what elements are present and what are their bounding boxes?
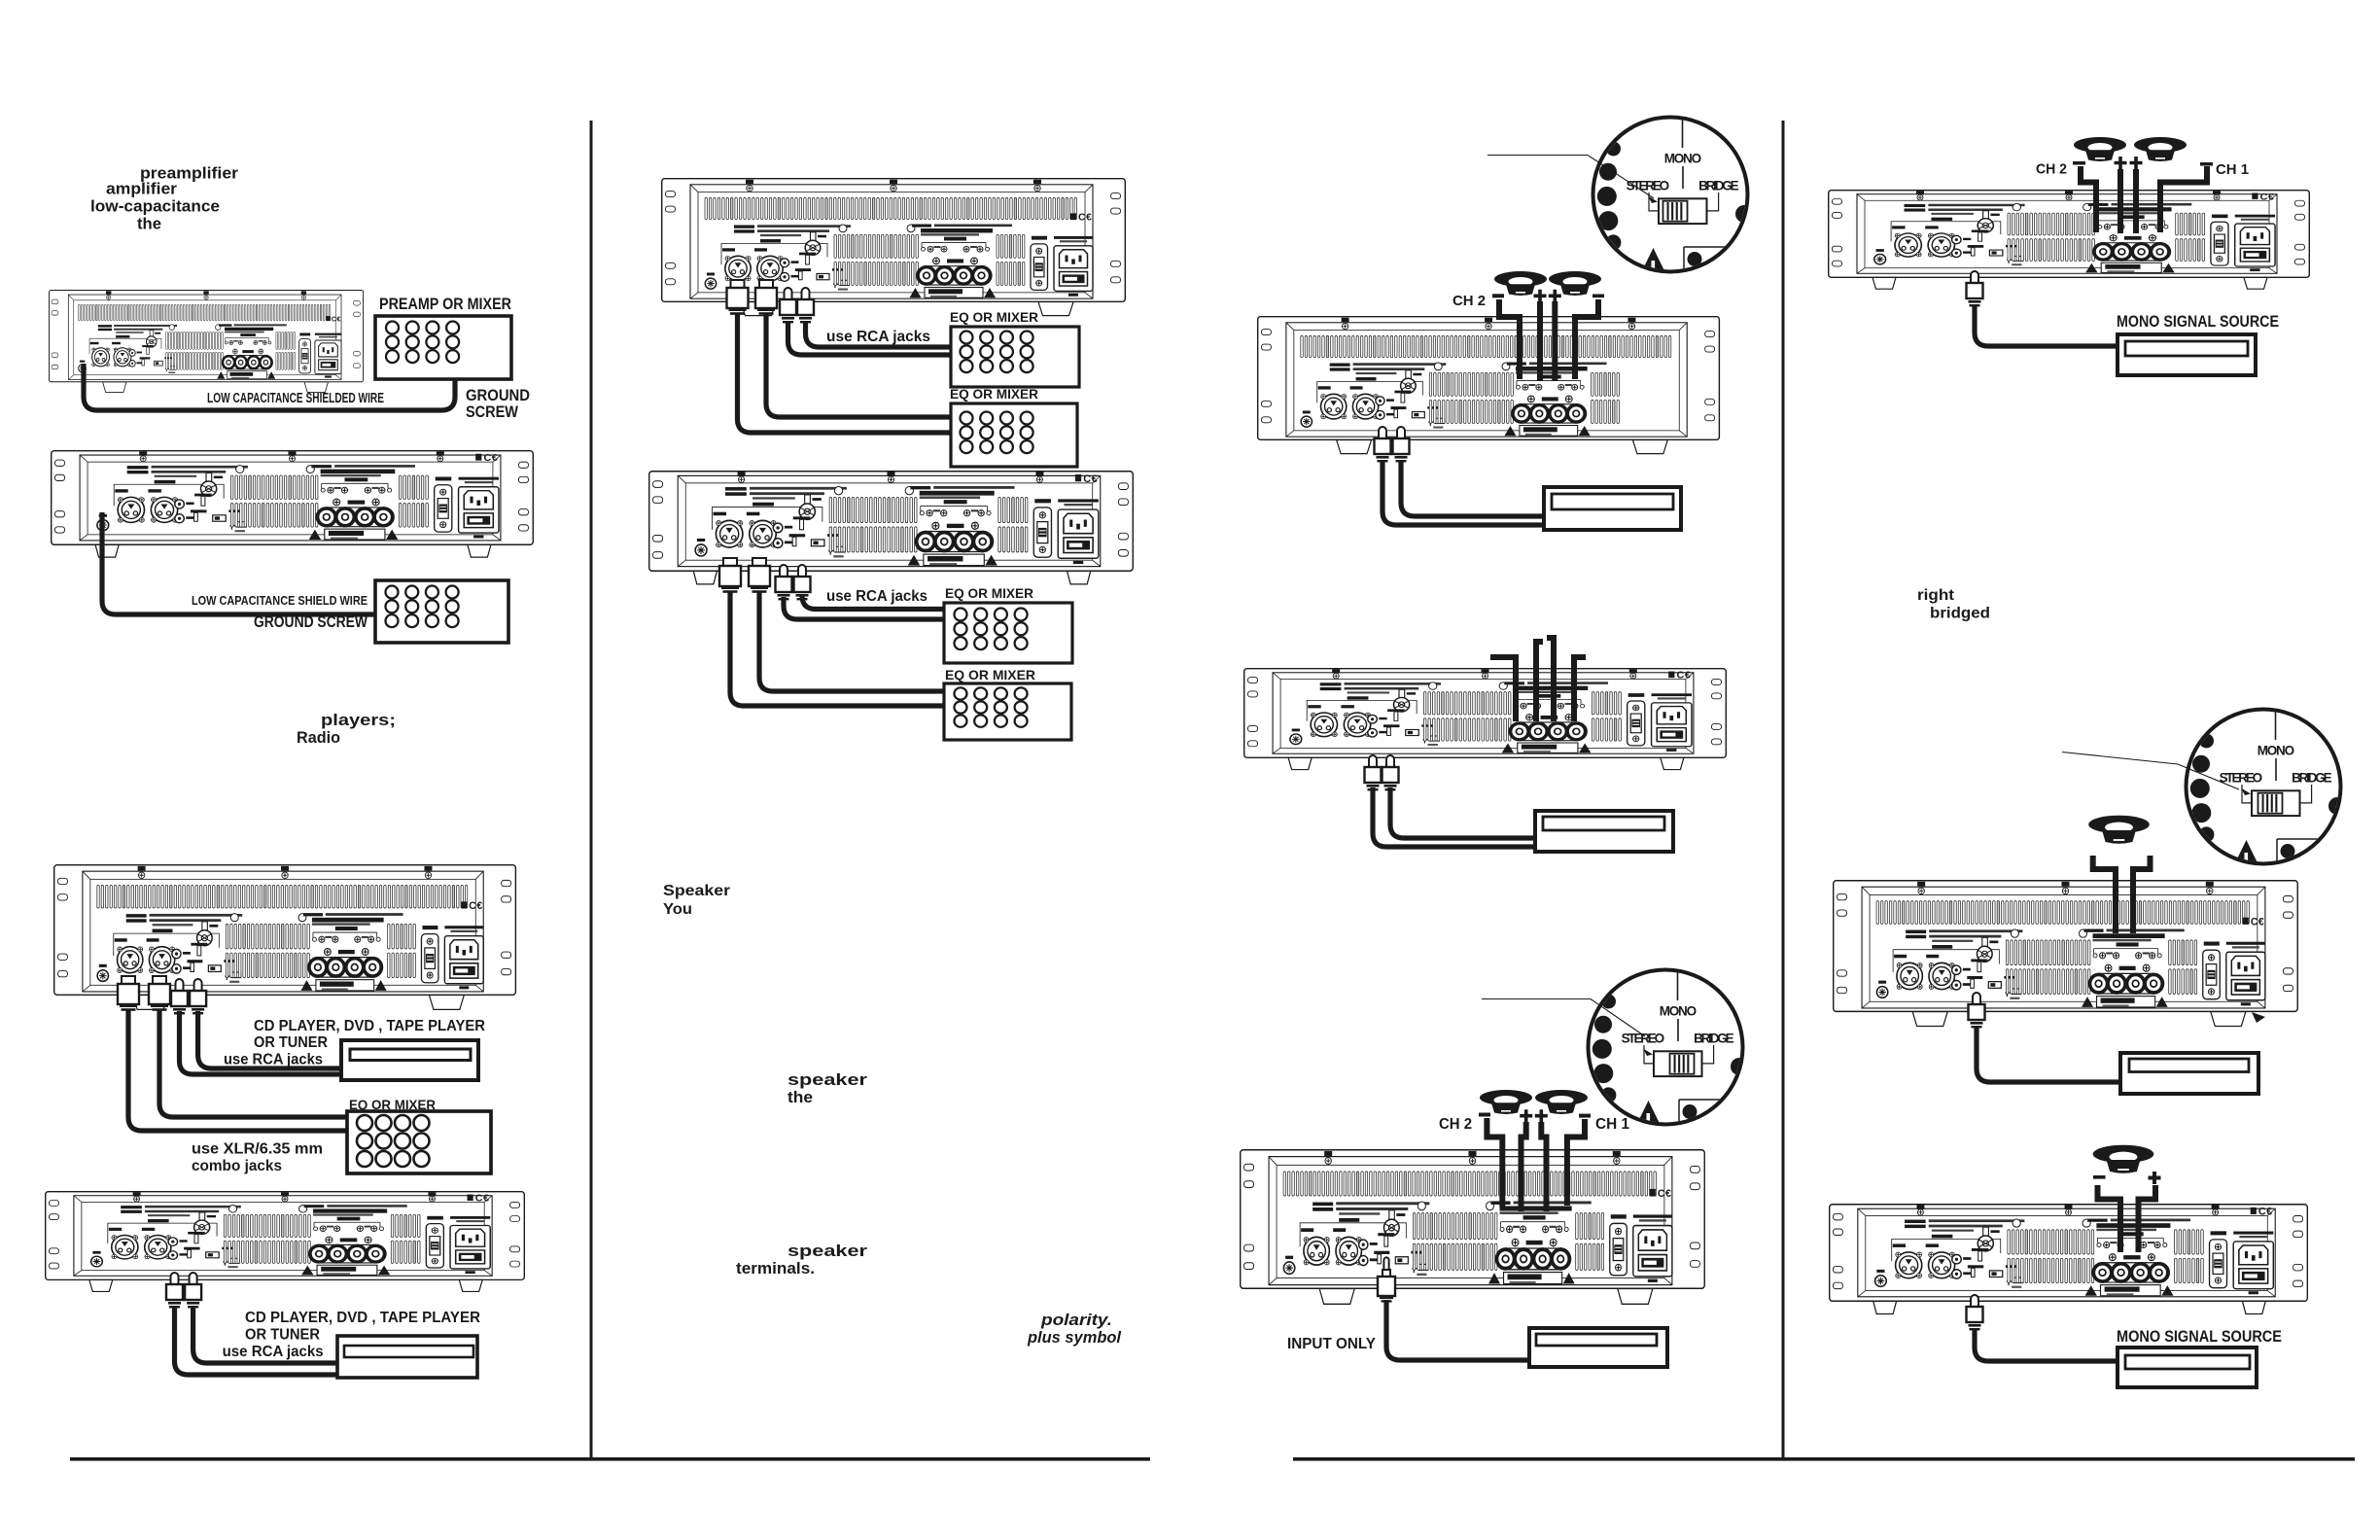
XLR plug 1 into AMP6 bbox=[719, 558, 741, 593]
RCA wire AMP5 upper to EQ box 1 bbox=[806, 321, 952, 347]
signal wire AMP8 lower to source box bbox=[1373, 787, 1535, 847]
svg-text:Radio: Radio bbox=[297, 728, 340, 747]
svg-text:SCREW: SCREW bbox=[466, 402, 519, 421]
polarity marks speaker5 bbox=[2093, 1175, 2106, 1179]
signal wire AMP9 to source box bbox=[1386, 1300, 1529, 1360]
zoom circle 2 leader line bbox=[1482, 999, 1645, 1037]
RCA wire AMP3 upper to CD player bbox=[198, 1011, 341, 1068]
EQ or mixer box 4 bbox=[944, 683, 1071, 740]
svg-text:right: right bbox=[1917, 587, 1955, 604]
RCA wire AMP3 lower to CD player bbox=[180, 1011, 343, 1074]
EQ or mixer box 3 bbox=[944, 603, 1072, 663]
ground wire AMP2 to ground-screw box bbox=[102, 512, 375, 614]
XLR wire AMP6 lower to EQ box 4 bbox=[730, 591, 944, 706]
RCA plug 2 into AMP7 bbox=[1393, 427, 1410, 462]
svg-text:PREAMP OR MIXER: PREAMP OR MIXER bbox=[379, 296, 511, 313]
amplifier AMP9 rear panel bbox=[1241, 1150, 1705, 1305]
signal source box diagram1 bbox=[1544, 487, 1681, 530]
signal wire AMP8 upper to source box bbox=[1390, 787, 1535, 838]
svg-text:combo jacks: combo jacks bbox=[192, 1158, 282, 1174]
speaker 5 single bbox=[2093, 1145, 2154, 1173]
amplifier AMP2 rear panel bbox=[52, 451, 534, 557]
CD player box 2 bbox=[337, 1336, 477, 1378]
RCA plug 2 into AMP5 bbox=[797, 288, 814, 323]
EQ box 2 jack grid bbox=[961, 412, 1033, 454]
EQ box 4 jack grid bbox=[955, 687, 1028, 726]
RCA wire AMP4 lower to CD player bbox=[175, 1306, 339, 1375]
zoom circle 3 (mode switch detail) bbox=[2187, 710, 2347, 865]
preamp jack grid bbox=[386, 322, 459, 364]
speaker 2 right (CH1) bbox=[1535, 1090, 1588, 1114]
CD player box bbox=[341, 1040, 478, 1080]
amplifier AMP7 rear panel (no PSU shown) bbox=[1258, 317, 1720, 454]
speaker wire 4a bbox=[2093, 856, 2116, 933]
wire stub b above AMP8 bbox=[1536, 642, 1543, 721]
XLR wire AMP5 upper to EQ box 2 bbox=[766, 313, 951, 417]
svg-text:low-capacitance: low-capacitance bbox=[90, 197, 220, 216]
svg-text:CD PLAYER, DVD , TAPE PLAYER: CD PLAYER, DVD , TAPE PLAYER bbox=[254, 1018, 485, 1034]
svg-text:CH 2: CH 2 bbox=[1452, 293, 1486, 309]
EQ or mixer box bbox=[347, 1111, 491, 1173]
svg-text:EQ OR MIXER: EQ OR MIXER bbox=[950, 309, 1038, 325]
RCA plug into AMP12 bbox=[1967, 1295, 1983, 1330]
signal wire AMP11 to source box bbox=[1977, 1026, 2120, 1082]
svg-text:EQ OR MIXER: EQ OR MIXER bbox=[945, 667, 1035, 682]
amplifier AMP1 rear panel bbox=[49, 291, 363, 393]
speaker wire 3c bbox=[2133, 169, 2139, 233]
XLR wire AMP5 lower to EQ box 2 bbox=[738, 313, 952, 433]
amplifier AMP10 rear panel bbox=[1829, 191, 2310, 290]
speaker wire 3b bbox=[2117, 169, 2123, 233]
svg-text:Speaker: Speaker bbox=[663, 883, 730, 899]
svg-text:MONO SIGNAL SOURCE: MONO SIGNAL SOURCE bbox=[2117, 313, 2279, 331]
svg-text:polarity.: polarity. bbox=[1040, 1312, 1112, 1329]
mono signal source box 2 bbox=[2120, 1053, 2258, 1094]
RCA plug 1 into AMP5 bbox=[780, 288, 796, 323]
XLR plug 1 into AMP3 bbox=[118, 976, 139, 1011]
polarity marks diagram1 bbox=[1492, 294, 1504, 297]
wire stub a above AMP8 bbox=[1490, 657, 1516, 721]
speaker 1 left (CH2) bbox=[1494, 271, 1547, 296]
XLR plug 2 into AMP6 bbox=[749, 558, 770, 593]
XLR wire AMP3 lower to EQ box bbox=[128, 1009, 347, 1131]
amplifier AMP5 rear panel bbox=[662, 179, 1126, 316]
svg-text:You: You bbox=[663, 901, 692, 918]
amplifier AMP3 rear panel bbox=[54, 865, 516, 1010]
wire stub d above AMP8 bbox=[1574, 657, 1586, 721]
zoom circle 2 (bridge mode detail) bbox=[1589, 970, 1749, 1126]
RCA plug into AMP10 bbox=[1967, 271, 1983, 306]
RCA plug into AMP11 bbox=[1969, 993, 1985, 1028]
speaker wire 2b bbox=[1522, 1122, 1526, 1211]
svg-text:OR TUNER: OR TUNER bbox=[254, 1034, 328, 1051]
polarity marks diagram2 bbox=[1479, 1113, 1490, 1117]
zoom circle 1 leader line bbox=[1487, 156, 1654, 199]
signal wire AMP7 upper to source box bbox=[1401, 460, 1544, 516]
EQ box 1 jack grid bbox=[961, 332, 1033, 373]
speaker wire 1a bbox=[1499, 299, 1520, 379]
speaker wire 1d bbox=[1575, 299, 1598, 379]
svg-text:CD PLAYER, DVD , TAPE PLAYER: CD PLAYER, DVD , TAPE PLAYER bbox=[245, 1310, 480, 1326]
svg-text:EQ OR MIXER: EQ OR MIXER bbox=[945, 585, 1033, 601]
amplifier AMP6 rear panel bbox=[649, 472, 1134, 584]
amplifier AMP12 rear panel bbox=[1830, 1205, 2308, 1314]
speaker wire 3d bbox=[2160, 166, 2207, 232]
svg-text:MONO SIGNAL SOURCE: MONO SIGNAL SOURCE bbox=[2117, 1328, 2282, 1346]
svg-text:CH 2: CH 2 bbox=[2036, 161, 2067, 178]
EQ box jack grid bbox=[357, 1115, 430, 1167]
svg-text:speaker: speaker bbox=[787, 1242, 867, 1260]
EQ box 3 jack grid bbox=[955, 609, 1028, 650]
svg-text:LOW CAPACITANCE SHIELDED WIRE: LOW CAPACITANCE SHIELDED WIRE bbox=[207, 391, 384, 406]
signal wire AMP7 lower to source box bbox=[1382, 460, 1544, 525]
svg-text:terminals.: terminals. bbox=[736, 1259, 815, 1277]
wire stub c above AMP8 bbox=[1547, 638, 1554, 721]
speaker 3 left (CH2) bbox=[2074, 137, 2126, 161]
svg-text:EQ OR MIXER: EQ OR MIXER bbox=[950, 386, 1038, 402]
RCA wire AMP5 lower to EQ box 1 bbox=[788, 321, 952, 355]
RCA plug 2 into AMP8 bbox=[1382, 755, 1399, 790]
amplifier AMP11 rear panel bbox=[1834, 881, 2298, 1027]
svg-text:the: the bbox=[137, 215, 161, 233]
RCA plug 1 into AMP8 bbox=[1365, 755, 1382, 790]
svg-text:CH 2: CH 2 bbox=[1439, 1116, 1472, 1133]
XLR wire AMP3 upper to EQ box bbox=[159, 1009, 347, 1117]
svg-text:INPUT ONLY: INPUT ONLY bbox=[1287, 1336, 1377, 1352]
speaker 4 single bbox=[2088, 816, 2150, 844]
speaker wire 3a bbox=[2081, 166, 2096, 232]
RCA plug 2 into AMP6 bbox=[794, 565, 811, 600]
svg-text:OR TUNER: OR TUNER bbox=[245, 1327, 320, 1344]
signal source box diagram3 bbox=[1529, 1328, 1667, 1367]
jack plug into AMP9 bbox=[1378, 1257, 1395, 1302]
svg-text:players;: players; bbox=[321, 711, 396, 729]
ground screw box jack grid bbox=[386, 586, 459, 628]
EQ or mixer box 2 bbox=[951, 403, 1077, 467]
zoom circle 1 (mode switch detail) bbox=[1593, 118, 1754, 273]
speaker wire 1c bbox=[1552, 301, 1557, 381]
preamp/mixer box bbox=[375, 316, 511, 379]
speaker wire 2c bbox=[1541, 1122, 1546, 1211]
bottom rule right bbox=[1293, 1457, 2355, 1461]
amplifier AMP4 rear panel bbox=[46, 1192, 525, 1292]
speaker 2 left (CH2) bbox=[1480, 1090, 1532, 1114]
XLR plug 2 into AMP5 bbox=[755, 280, 777, 315]
RCA plug 1 into AMP7 bbox=[1375, 427, 1391, 462]
speaker wire 2d bbox=[1567, 1119, 1585, 1206]
bottom rule left bbox=[70, 1457, 1150, 1461]
RCA wire AMP4 upper to CD player bbox=[193, 1306, 337, 1363]
mono signal source box 1 bbox=[2117, 334, 2256, 375]
speaker wire 5b bbox=[2139, 1185, 2156, 1252]
signal wire AMP12 to source box bbox=[1975, 1328, 2117, 1361]
svg-text:speaker: speaker bbox=[787, 1070, 867, 1089]
svg-text:LOW CAPACITANCE SHIELD WIRE: LOW CAPACITANCE SHIELD WIRE bbox=[192, 593, 367, 608]
zoom circle 3 leader line bbox=[2062, 752, 2239, 790]
ground wire AMP1 to preamp bbox=[84, 364, 455, 410]
amplifier AMP8 rear panel bbox=[1244, 669, 1727, 770]
speaker wire 1b bbox=[1537, 301, 1543, 381]
column divider line 2 bbox=[1782, 121, 1785, 1459]
svg-text:use RCA jacks: use RCA jacks bbox=[223, 1344, 324, 1360]
RCA plug 1 into AMP6 bbox=[776, 565, 792, 600]
speaker wire 4b bbox=[2133, 856, 2151, 933]
XLR plug 2 into AMP3 bbox=[149, 976, 170, 1011]
EQ or mixer box 1 bbox=[951, 327, 1079, 387]
signal source box diagram2 bbox=[1535, 811, 1673, 852]
speaker wire 5a bbox=[2098, 1185, 2121, 1252]
svg-text:use RCA jacks: use RCA jacks bbox=[826, 329, 930, 345]
svg-text:use XLR/6.35 mm: use XLR/6.35 mm bbox=[192, 1141, 323, 1158]
RCA wire AMP6 upper to EQ box 3 bbox=[802, 596, 944, 610]
svg-text:use RCA jacks: use RCA jacks bbox=[826, 588, 927, 605]
RCA plug 1 into AMP4 bbox=[166, 1273, 183, 1308]
svg-text:plus symbol: plus symbol bbox=[1027, 1329, 1121, 1347]
svg-text:CH 1: CH 1 bbox=[2216, 161, 2249, 178]
svg-text:use RCA jacks: use RCA jacks bbox=[224, 1052, 323, 1068]
RCA plug 2 into AMP4 bbox=[185, 1273, 201, 1308]
ground screw box bbox=[375, 580, 508, 643]
XLR wire AMP6 upper to EQ box 4 bbox=[759, 591, 944, 691]
speaker 1 right bbox=[1549, 271, 1601, 296]
RCA wire AMP6 lower to EQ box 3 bbox=[784, 597, 944, 619]
cursor artifact bbox=[2252, 1012, 2265, 1023]
mono signal source box 3 bbox=[2117, 1347, 2257, 1387]
speaker wire 2a bbox=[1487, 1118, 1502, 1207]
svg-text:amplifier: amplifier bbox=[106, 180, 177, 198]
RCA plug 1 into AMP3 bbox=[171, 979, 188, 1014]
svg-text:CH 1: CH 1 bbox=[1595, 1116, 1629, 1133]
polarity marks diagram3 bbox=[2073, 161, 2085, 165]
column divider line 1 bbox=[590, 121, 593, 1459]
svg-text:GROUND SCREW: GROUND SCREW bbox=[254, 613, 367, 631]
speaker 3 right (CH1) bbox=[2134, 137, 2187, 161]
RCA plug 2 into AMP3 bbox=[190, 979, 206, 1014]
svg-text:the: the bbox=[787, 1088, 813, 1106]
XLR plug 1 into AMP5 bbox=[727, 280, 749, 315]
svg-text:bridged: bridged bbox=[1930, 606, 1990, 622]
signal wire AMP10 to source box bbox=[1975, 304, 2117, 346]
